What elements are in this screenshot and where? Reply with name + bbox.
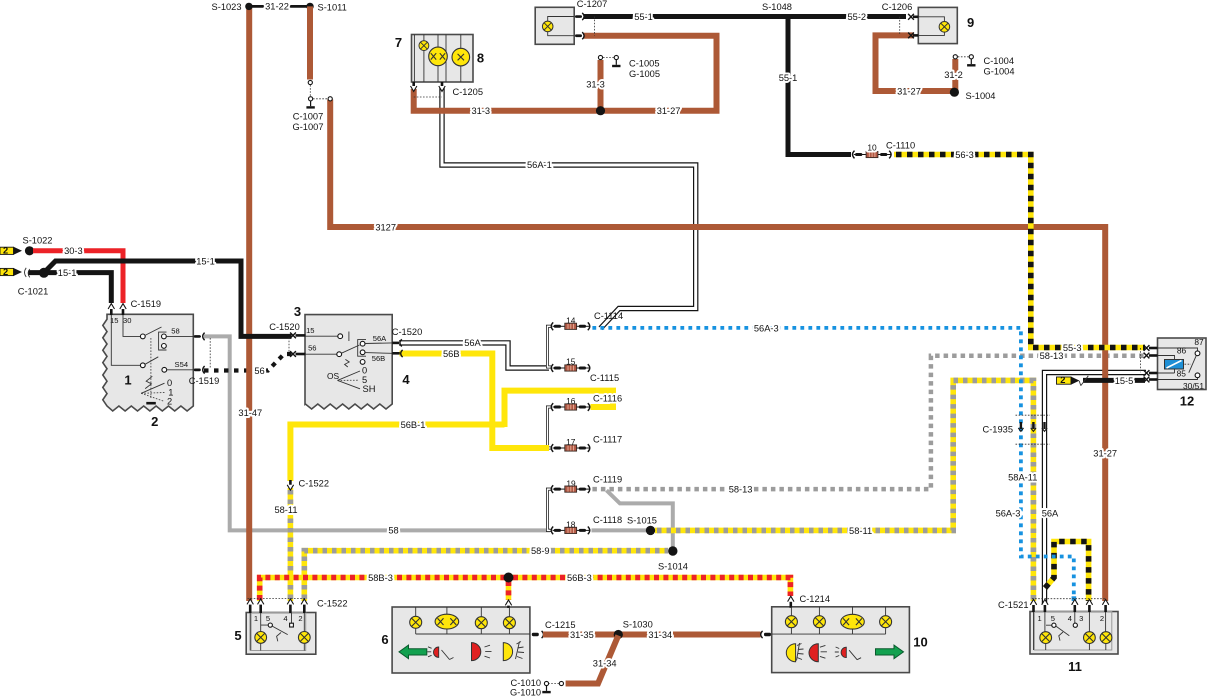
large lamp in unit 8: [452, 48, 470, 66]
svg-text:C-1522: C-1522: [299, 479, 330, 489]
white link wire between C-1114 and C-1115 left leads: [548, 326, 552, 367]
ground G-1007: [306, 101, 314, 108]
svg-text:15-5: 15-5: [1115, 376, 1134, 386]
lamp unit 7/8 box: [412, 35, 474, 83]
svg-text:4: 4: [1068, 614, 1072, 623]
wire 58B-3 (red/yellow dashed) lamp unit 5 pin 5 to splice at lamp unit 6: [260, 578, 509, 602]
svg-text:6: 6: [381, 632, 388, 647]
svg-text:17: 17: [566, 437, 576, 447]
splice S-1015: [646, 526, 655, 535]
white link wire between C-1116 and C-1117 left leads: [548, 407, 552, 448]
svg-text:G-1005: G-1005: [629, 69, 660, 79]
unit 6 lamps row: [416, 607, 530, 634]
dotted connector line at relay: [1140, 348, 1142, 373]
pin 15 of switch 3: [290, 333, 296, 339]
unit 6 top pin (red/yellow feed): [505, 600, 511, 605]
wire 31-3 (brown) riser from junction up to connector C-1005: [598, 60, 604, 111]
pin 30 of switch 1: [122, 309, 125, 316]
unit 10 yellow dome lamp: [786, 644, 795, 662]
svg-text:C-1519: C-1519: [131, 299, 162, 309]
svg-text:S-1011: S-1011: [318, 2, 347, 12]
connector C-1010 rings: [559, 681, 563, 685]
double filament lamp in unit 7: [429, 47, 448, 66]
svg-text:19: 19: [566, 478, 576, 488]
svg-text:12: 12: [1180, 394, 1194, 409]
svg-text:55-1: 55-1: [634, 12, 653, 22]
dotted connector line C-1207: [594, 17, 596, 36]
lamp/switch unit 5 box: [246, 613, 316, 655]
yellow/black dashed jumper from pin 5 wire to lamp unit 11 pin 3: [1045, 542, 1089, 602]
contact pair with bracket: [159, 332, 167, 350]
small lamp in unit 7: [419, 41, 429, 51]
svg-text:S-1014: S-1014: [658, 562, 688, 572]
pin 56 of switch 3: [290, 351, 296, 357]
svg-text:56B: 56B: [443, 349, 460, 359]
dotted connector line C-1206: [899, 17, 901, 36]
svg-text:3127: 3127: [375, 222, 396, 232]
svg-text:C-1110: C-1110: [886, 141, 915, 151]
wire 55-1 (black) from C-1207 to junction S-1048 and down to C-1110: [584, 17, 851, 155]
red/yellow drop from splice down to lamp unit 6 top pin: [506, 578, 512, 601]
svg-text:31-27: 31-27: [657, 106, 681, 116]
svg-text:56A: 56A: [1042, 509, 1059, 519]
ground G-1005: [612, 60, 620, 67]
svg-text:58-11: 58-11: [274, 505, 297, 515]
in-line connector C-1116: [551, 403, 590, 411]
svg-text:S-1023: S-1023: [212, 2, 242, 12]
ground G-1004: [967, 59, 975, 66]
switch 1 contact from pin 30: [123, 315, 140, 336]
svg-text:C-1935: C-1935: [983, 425, 1014, 435]
svg-text:4: 4: [402, 372, 410, 387]
wire 30-3 (red) from S-1022 to ignition switch C-1519: [33, 251, 123, 303]
relay contact: [1195, 351, 1200, 356]
unit 6 green turn arrow (left): [399, 645, 427, 659]
svg-text:C-1115: C-1115: [590, 373, 619, 383]
svg-text:31-34: 31-34: [593, 659, 617, 669]
svg-text:3: 3: [294, 304, 301, 319]
svg-text:14: 14: [566, 315, 576, 325]
svg-text:C-1207: C-1207: [577, 0, 608, 9]
svg-text:C-1118: C-1118: [593, 515, 622, 525]
wire break marks at C-1021: [25, 268, 30, 278]
svg-text:31-34: 31-34: [648, 630, 672, 640]
svg-text:56B-1: 56B-1: [401, 420, 426, 430]
unit 11 pin 5: [1042, 599, 1048, 604]
svg-text:5: 5: [234, 628, 241, 643]
relay coil (blue): [1165, 360, 1184, 370]
svg-text:31-35: 31-35: [570, 630, 594, 640]
svg-text:C-1519: C-1519: [189, 376, 220, 386]
C-1935 pin on blue wire: [1018, 422, 1023, 431]
svg-text:1: 1: [254, 614, 258, 623]
wire 31-2 (brown) riser from S-1004 to connector C-1004: [952, 59, 958, 91]
C-1935 pin on white wire: [1042, 422, 1047, 431]
wire 56B (yellow) from switch 3/4 down to connector C-1117: [400, 354, 550, 449]
svg-text:C-1520: C-1520: [392, 327, 423, 337]
svg-text:C-1214: C-1214: [800, 594, 831, 604]
svg-text:OS: OS: [327, 371, 340, 381]
in-line connector C-1935 dashed lines: [1016, 414, 1051, 416]
wire 56A-1 (black outlined white wire) from lamp unit 7/8 C-1205 down to node C-1114: [442, 88, 696, 328]
wire 56-3 / 55-3 (yellow/black dashed) from C-1110 to relay pin 87: [894, 155, 1145, 348]
relay pin 30/51: [1144, 377, 1150, 383]
dotted link to 3127 wire start ring: [313, 98, 328, 100]
wire 31-35 / 31-34 (brown) from C-1215 to lamp unit 10: [543, 632, 761, 638]
svg-text:C-1004: C-1004: [984, 56, 1015, 66]
svg-text:2: 2: [298, 614, 302, 623]
svg-text:C-1205: C-1205: [453, 87, 484, 97]
spring symbol: [345, 359, 350, 367]
svg-text:30: 30: [123, 316, 131, 325]
svg-text:C-1522: C-1522: [317, 598, 348, 608]
svg-text:16: 16: [566, 396, 576, 406]
switch 1 contact from pin 15: [111, 315, 140, 365]
splice dot on 58B-3/56B-3 wire: [504, 573, 514, 583]
bottom pin (brown 31-3) of unit 7/8: [412, 82, 415, 87]
svg-text:G-1004: G-1004: [984, 66, 1015, 76]
svg-text:10: 10: [913, 635, 927, 650]
pin 15 of switch 1: [110, 309, 113, 316]
svg-text:S-1048: S-1048: [762, 2, 792, 12]
splice S-1030: [614, 630, 623, 639]
svg-text:1: 1: [1037, 614, 1041, 623]
svg-text:55-2: 55-2: [847, 12, 866, 22]
wire break slash at 15-5: [1079, 376, 1088, 386]
C-1207 pins: [575, 15, 582, 18]
in-line connector C-1119: [551, 485, 590, 493]
svg-text:15-1: 15-1: [58, 268, 77, 278]
wire 56A (white wire) from switch 3/4 to connector C-1115: [399, 343, 549, 368]
svg-text:2: 2: [167, 397, 172, 407]
svg-text:58-11: 58-11: [849, 526, 872, 536]
svg-text:1: 1: [124, 372, 131, 387]
lamp/switch unit 11 box: [1030, 612, 1118, 655]
svg-text:C-1005: C-1005: [629, 58, 660, 68]
svg-text:C-1117: C-1117: [593, 434, 622, 444]
svg-text:0: 0: [362, 365, 367, 375]
relay pin 86: [1144, 353, 1150, 359]
wire 56B-1 (yellow) horizontal run to C-1522 drop: [290, 425, 504, 482]
svg-text:85: 85: [1177, 369, 1187, 379]
svg-text:G-1007: G-1007: [292, 122, 323, 132]
svg-text:C-1119: C-1119: [593, 475, 622, 485]
unit 10 top pin C-1214: [788, 596, 794, 601]
svg-text:2: 2: [1100, 614, 1104, 623]
feed terminal 2 (yellow arrow) for wire 15-5: [1057, 375, 1080, 385]
ground G-1010: [542, 686, 550, 693]
wire 55-2 (black) from junction S-1048 to lamp C-1206: [788, 14, 906, 19]
wire 31-47 (brown) from splice S-1023 down to lamp unit 5 pin 1: [246, 6, 252, 601]
unit 11 pin 2: [1102, 599, 1108, 604]
svg-text:86: 86: [1177, 346, 1187, 356]
svg-text:87: 87: [1194, 337, 1204, 347]
wire 58 (gray) branch from C-1119 node down to splice S-1014: [607, 490, 673, 549]
unit 10 input pin: [761, 631, 763, 638]
svg-text:5: 5: [1051, 614, 1055, 623]
unit 10 lamps row: [772, 607, 886, 634]
unit 5 pin 2: [301, 599, 307, 604]
white link wire between C-1119 and C-1118 left leads: [548, 489, 552, 530]
C-1935 pin on yellow/gray wire: [1031, 422, 1036, 431]
unit 10 red dome lamp: [809, 644, 818, 662]
svg-text:58: 58: [388, 526, 398, 536]
unit 11 pin 1: [1030, 599, 1036, 604]
wire 58-11 (yellow/gray dashed) from C-1522 down to lamp unit 5 pin 4: [288, 488, 294, 601]
svg-text:11: 11: [1068, 659, 1082, 674]
svg-text:56: 56: [308, 344, 316, 353]
wire 15-1 (black) upper run to light switch 3 pin 15: [44, 261, 292, 336]
svg-text:C-1007: C-1007: [293, 111, 324, 121]
svg-text:56A-3: 56A-3: [754, 323, 779, 333]
unit 5 pin 5: [258, 599, 264, 604]
brown wire from S-1011 down to connector C-1007: [307, 6, 313, 79]
svg-text:58-13: 58-13: [1040, 351, 1064, 361]
battery feed terminal 2 (yellow arrow): [0, 267, 22, 277]
output pin S54 of switch 1 (to dashed 56 wire): [194, 369, 201, 372]
svg-text:58B-3: 58B-3: [368, 573, 393, 583]
relay internal wiring: [1158, 348, 1198, 380]
in-line connector C-1110: [853, 151, 892, 159]
svg-text:56B-3: 56B-3: [567, 573, 592, 583]
wire 58-13 (gray dashed) C-1119 to relay pin 86: [592, 356, 1145, 489]
unit 11 pin 4: [1072, 599, 1078, 604]
wire 15-5 (black) to relay pin 30/51: [1083, 378, 1145, 383]
unit 6 output pin C-1215: [532, 633, 539, 636]
lamp unit 6 box: [392, 607, 530, 673]
relay pin 85: [1144, 370, 1150, 376]
connector C-1004 rings: [953, 55, 957, 59]
svg-text:G-1010: G-1010: [510, 688, 541, 698]
dotted connector line C-1521 at unit 11: [1032, 598, 1106, 600]
svg-text:C-1116: C-1116: [593, 394, 622, 404]
svg-text:31-27: 31-27: [897, 86, 921, 96]
svg-text:C-1114: C-1114: [594, 311, 623, 321]
svg-text:18: 18: [566, 519, 576, 529]
unit 11 pin 3: [1086, 599, 1092, 604]
wire 31-34 (brown) from S-1030 down to ground C-1010: [566, 636, 619, 684]
bottom pin (56A-1) of unit 7/8: [441, 82, 444, 87]
svg-text:30/51: 30/51: [1183, 381, 1204, 391]
svg-text:15: 15: [306, 326, 314, 335]
svg-text:5: 5: [266, 614, 270, 623]
dotted actuator shaft of switch 1: [150, 338, 152, 398]
ignition/light switch unit 1 (box with torn edges, part of unit 2): [103, 314, 194, 411]
svg-text:30-3: 30-3: [64, 246, 83, 256]
svg-text:2: 2: [3, 267, 8, 277]
svg-text:C-1521: C-1521: [998, 600, 1029, 610]
splice S-1011: [306, 3, 313, 10]
splice S-1004: [950, 88, 959, 97]
wire 56B (yellow) branch loop to right lead of connector C-1116: [505, 391, 614, 427]
svg-text:S-1004: S-1004: [966, 91, 996, 101]
light switch unit 3 (box with torn bottom edge): [305, 315, 392, 409]
svg-text:15: 15: [566, 356, 576, 366]
connector C-1007 rings: [308, 80, 312, 84]
output pin 58 of switch 1 (to gray wire): [194, 335, 201, 338]
unit 5 pin 4: [287, 599, 293, 604]
connector C-1005 rings: [598, 55, 602, 59]
wire 56A (white wire) from relay pin 85 down through C-1935 to lamp unit 11 pin 5: [1045, 373, 1147, 605]
svg-text:S-1022: S-1022: [23, 236, 53, 246]
svg-text:55-3: 55-3: [1063, 343, 1082, 353]
output pin 56A of switch 3: [392, 342, 399, 345]
svg-text:4: 4: [283, 614, 287, 623]
wire 56 (black dashed) from switch 1 pin S54 to switch 3 pin 56: [204, 354, 293, 371]
svg-text:7: 7: [395, 35, 402, 50]
dotted connector line C-1520: [288, 338, 290, 353]
junction dot at C-1021: [39, 268, 49, 278]
connector pin C-1522 on 56B-1/58-11 wire: [289, 480, 292, 485]
svg-text:56-3: 56-3: [955, 150, 974, 160]
dotted connector line C-1519 between pins: [209, 338, 211, 368]
side lamp unit 9 at C-1206: [918, 7, 957, 43]
unit 6 small red indicator: [434, 647, 439, 657]
battery feed terminal 1 (yellow arrow): [0, 246, 22, 256]
svg-text:58: 58: [171, 326, 179, 335]
splice S-1023: [245, 3, 252, 10]
output pin 56B of switch 3: [392, 352, 400, 355]
svg-text:31-22: 31-22: [265, 2, 289, 12]
wire 56B-3 (red/yellow dashed) splice to connector C-1214 of lamp unit 10: [509, 578, 791, 597]
svg-text:3: 3: [1079, 614, 1083, 623]
svg-text:31-3: 31-3: [471, 106, 490, 116]
unit 5 internals: [250, 613, 304, 651]
lamp unit 10 box: [772, 607, 910, 673]
dotted connector line C-1205: [414, 96, 442, 98]
wire 3127 / 31-27 (brown) from C-1007 across to lamp unit 11 pin 2: [330, 100, 1105, 602]
wire 31-27 (brown) from C-1206 to splice S-1004: [876, 35, 955, 91]
svg-text:56A-1: 56A-1: [527, 160, 552, 170]
in-line connector C-1118: [551, 527, 590, 535]
svg-text:58-13: 58-13: [729, 484, 753, 494]
svg-text:2: 2: [1060, 375, 1065, 385]
svg-text:2: 2: [3, 246, 8, 256]
output 58 line of switch 1: [166, 335, 201, 337]
switch 3 internal contacts: [305, 335, 338, 337]
wire 58 (gray) from switch 1 pin 58 to C-1118: [204, 336, 550, 530]
svg-text:C-1021: C-1021: [18, 287, 49, 297]
splice S-1022: [25, 246, 34, 255]
svg-text:15-1: 15-1: [196, 256, 215, 266]
unit 6 yellow dome lamp: [503, 643, 512, 661]
svg-text:9: 9: [967, 15, 974, 30]
splice junction on wire 31-3: [596, 106, 605, 115]
unit 6 red dome lamp: [472, 643, 481, 661]
detent positions 0/1/2 of switch 1: [141, 383, 164, 393]
svg-text:56: 56: [254, 366, 264, 376]
dotted connector line C-1522 at unit 5: [248, 597, 306, 599]
svg-text:31-2: 31-2: [944, 70, 963, 80]
unit 11 internals: [1034, 612, 1106, 650]
svg-text:56A-3: 56A-3: [996, 509, 1021, 519]
svg-text:8: 8: [477, 51, 484, 66]
svg-text:55-1: 55-1: [779, 73, 798, 83]
wire 31-22 (black) between splices S-1023 and S-1011: [249, 5, 310, 8]
in-line connector C-1117: [551, 444, 590, 452]
splice S-1014: [668, 546, 677, 555]
svg-text:C-1206: C-1206: [882, 2, 913, 12]
C-1206 pins: [908, 14, 914, 20]
svg-text:0: 0: [167, 378, 172, 388]
wire 58-9 (yellow/gray dashed) lamp unit 5 pin 2 to splice S-1014: [304, 551, 668, 601]
svg-text:31-3: 31-3: [586, 79, 605, 89]
wire 58-11 (yellow/gray dashed) from S-1015 up over to lamp unit 11 pin 1: [655, 380, 1033, 601]
svg-text:31-27: 31-27: [1093, 448, 1117, 458]
in-line connector C-1114: [551, 322, 590, 330]
unit 10 green turn arrow (right): [876, 645, 904, 659]
svg-text:C-1215: C-1215: [545, 620, 576, 630]
relay pin 87: [1144, 345, 1150, 351]
svg-text:56B: 56B: [372, 354, 386, 363]
wire 31-3 (brown) from lamp unit 7/8 to junction and up to C-1207 lower pin: [414, 36, 717, 111]
svg-text:S-1015: S-1015: [627, 516, 657, 526]
svg-text:58-9: 58-9: [531, 546, 550, 556]
svg-text:56A: 56A: [464, 338, 481, 348]
svg-text:C-1520: C-1520: [269, 322, 300, 332]
unit 10 small red indicator: [841, 647, 846, 657]
svg-text:2: 2: [151, 414, 158, 429]
svg-text:58A-11: 58A-11: [1008, 472, 1037, 482]
svg-text:C-1010: C-1010: [511, 678, 542, 688]
svg-text:S54: S54: [175, 360, 189, 369]
wire 58 (gray) C-1118 to splice S-1015: [592, 528, 651, 532]
wire 15-1 (black) lower run to ignition switch pin 15: [29, 273, 112, 303]
svg-text:S-1030: S-1030: [623, 620, 653, 630]
svg-text:56A: 56A: [373, 334, 387, 343]
wire 56A-3 (blue dashed) from C-1114 to lamp unit 11 pin 4: [592, 328, 1073, 597]
svg-text:SH: SH: [363, 384, 376, 394]
unit 5 pin 1: [247, 599, 253, 604]
relay unit 12 box: [1158, 338, 1207, 390]
blue splice dot at lamp unit 11 pin 4: [1072, 596, 1077, 601]
svg-text:31-47: 31-47: [238, 408, 262, 418]
svg-text:10: 10: [867, 142, 877, 152]
side lamp unit at C-1207: [535, 7, 574, 44]
in-line connector C-1115: [551, 364, 590, 372]
